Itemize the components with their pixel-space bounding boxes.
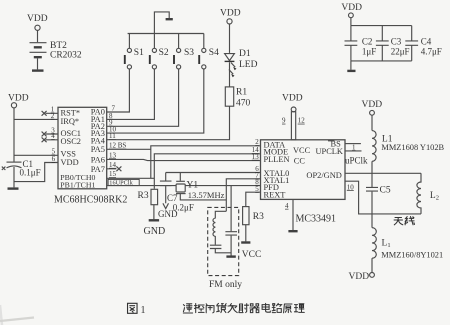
svg-text:22μF: 22μF bbox=[391, 46, 410, 56]
svg-text:10: 10 bbox=[347, 183, 355, 191]
svg-text:C3: C3 bbox=[391, 36, 402, 46]
LED arrows bbox=[229, 63, 235, 75]
svg-text:OSC2: OSC2 bbox=[61, 137, 81, 146]
wire PFD drop bbox=[230, 186, 232, 232]
wire pin 10 bbox=[345, 181, 421, 214]
svg-text:VDD: VDD bbox=[349, 272, 370, 282]
resistor R3 (right) bbox=[243, 207, 249, 225]
pin 4 no-connect bbox=[42, 137, 58, 142]
svg-text:4.7μF: 4.7μF bbox=[421, 46, 442, 56]
wire XTAL1 bbox=[226, 179, 260, 212]
wire pin16 UPClk / PFD bbox=[107, 185, 261, 187]
svg-text:S3: S3 bbox=[184, 48, 194, 58]
svg-text:MC33491: MC33491 bbox=[296, 214, 337, 225]
svg-text:2: 2 bbox=[255, 138, 259, 146]
MCU U1 MC68HC908RK2 bbox=[58, 107, 107, 189]
wire XTAL0 bbox=[166, 172, 261, 174]
pin BS stub bbox=[345, 143, 361, 145]
svg-text:VDD: VDD bbox=[61, 158, 79, 167]
svg-text:VDD: VDD bbox=[341, 3, 362, 13]
wire DATA corner bbox=[151, 146, 261, 179]
scan artifact bbox=[0, 318, 34, 322]
FM-only capacitor (left) bbox=[210, 245, 222, 248]
svg-text:CC: CC bbox=[294, 156, 306, 165]
capacitor C4 bbox=[405, 26, 418, 61]
FM-only network: inductor bbox=[213, 211, 226, 244]
battery BT2 CR2032 bbox=[30, 43, 47, 53]
svg-text:2: 2 bbox=[51, 112, 55, 120]
wire PA2 to S3 bbox=[107, 69, 179, 126]
wire REXT to R3 bbox=[246, 192, 261, 206]
svg-text:uPClk: uPClk bbox=[345, 155, 368, 165]
pin 1 no-connect bbox=[42, 111, 58, 116]
pin 1 UPCLK stub bbox=[345, 150, 362, 152]
svg-text:13: 13 bbox=[252, 153, 260, 161]
IC U2 MC33491 bbox=[261, 140, 346, 200]
svg-text:VDD: VDD bbox=[282, 94, 303, 104]
wire VSS to rail bbox=[14, 154, 58, 156]
svg-text:PA5: PA5 bbox=[91, 145, 105, 154]
resistor R1 470 bbox=[225, 87, 233, 106]
svg-text:PA7: PA7 bbox=[91, 165, 105, 174]
svg-text:VCC: VCC bbox=[242, 250, 262, 260]
svg-text:4: 4 bbox=[285, 202, 289, 210]
svg-text:VDD: VDD bbox=[8, 94, 29, 104]
svg-text:GND: GND bbox=[144, 226, 166, 237]
svg-text:14: 14 bbox=[109, 161, 117, 169]
svg-text:MC68HC908RK2: MC68HC908RK2 bbox=[54, 194, 127, 205]
wire PA5 BS stub bbox=[107, 148, 151, 150]
svg-text:LED: LED bbox=[239, 60, 258, 70]
svg-text:C2: C2 bbox=[362, 36, 373, 46]
wire PA4 to R1 bbox=[107, 106, 230, 140]
svg-text:C4: C4 bbox=[421, 36, 432, 46]
svg-text:1μF: 1μF bbox=[362, 46, 376, 56]
wire pin15 bbox=[107, 177, 155, 179]
capacitor C2 bbox=[345, 26, 358, 61]
inductor L1 MMZ1608 bbox=[372, 131, 376, 162]
FM-only capacitor (right) bbox=[225, 232, 237, 235]
svg-text:OP2/GND: OP2/GND bbox=[306, 171, 341, 180]
svg-text:R3: R3 bbox=[138, 191, 149, 201]
power VDD (bottom) bbox=[370, 273, 375, 278]
wire PA1 to S2 bbox=[107, 69, 155, 119]
svg-text:REXT: REXT bbox=[264, 190, 286, 199]
wire bbox=[37, 30, 39, 42]
ground bbox=[347, 70, 355, 72]
FM only dashed box bbox=[208, 207, 239, 275]
figure caption bbox=[128, 303, 138, 313]
capacitor C7 0.2uF bbox=[165, 173, 167, 181]
svg-text:6: 6 bbox=[52, 155, 56, 163]
svg-text:S4: S4 bbox=[209, 48, 219, 58]
svg-text:UPCLK: UPCLK bbox=[316, 147, 343, 156]
pin 14 no-connect bbox=[107, 166, 122, 171]
wire OP2 to L2 bbox=[345, 172, 421, 174]
svg-text:GND: GND bbox=[158, 209, 178, 219]
svg-text:13: 13 bbox=[109, 151, 117, 159]
ground bbox=[8, 187, 19, 189]
svg-text:S2: S2 bbox=[159, 48, 169, 58]
svg-text:VDD: VDD bbox=[27, 14, 48, 24]
wire PA0 to S1 bbox=[107, 69, 130, 112]
svg-text:R1: R1 bbox=[236, 88, 247, 98]
svg-text:D1: D1 bbox=[239, 49, 251, 59]
svg-text:MMZ1608 Y102B: MMZ1608 Y102B bbox=[381, 143, 444, 152]
svg-text:C5: C5 bbox=[380, 185, 391, 195]
svg-text:15: 15 bbox=[109, 170, 117, 178]
ground (switch bus) bbox=[154, 12, 169, 34]
capacitor C1 bbox=[7, 161, 22, 163]
svg-text:Y1: Y1 bbox=[187, 180, 199, 190]
switch S3 bbox=[174, 34, 194, 70]
svg-text:PLLEN: PLLEN bbox=[264, 155, 290, 164]
svg-text:470: 470 bbox=[236, 99, 251, 109]
svg-text:9: 9 bbox=[282, 117, 286, 125]
wire IRQ to rail bbox=[14, 118, 58, 120]
capacitor C5 bbox=[366, 187, 378, 191]
resistor R3 (left) bbox=[151, 189, 158, 204]
svg-text:PB1/TCH1: PB1/TCH1 bbox=[60, 181, 95, 190]
wire PA3 to S4 bbox=[107, 69, 204, 133]
svg-text:VCC: VCC bbox=[293, 146, 311, 155]
ground bbox=[149, 219, 159, 221]
svg-text:4: 4 bbox=[51, 132, 55, 140]
wire top rail bbox=[351, 25, 412, 27]
svg-text:CR2032: CR2032 bbox=[50, 51, 82, 61]
svg-text:12: 12 bbox=[298, 117, 306, 125]
svg-text:1: 1 bbox=[141, 305, 146, 316]
antenna label (tian xian) bbox=[394, 218, 403, 225]
svg-text:13.57MHz: 13.57MHz bbox=[188, 190, 225, 200]
wire MODE corner to R3 bbox=[154, 154, 260, 189]
switch bus wire bbox=[128, 33, 204, 35]
svg-text:12 BS: 12 BS bbox=[109, 142, 126, 150]
svg-text:VDD: VDD bbox=[362, 100, 383, 110]
switch S4 bbox=[199, 34, 219, 70]
svg-text:5: 5 bbox=[255, 185, 259, 193]
crystal Y1 13.57MHz bbox=[179, 173, 181, 181]
svg-text:S1: S1 bbox=[134, 48, 144, 58]
svg-text:PA6: PA6 bbox=[91, 155, 105, 164]
svg-text:FM only: FM only bbox=[209, 280, 242, 290]
inductor L1' MMZ160/8Y1021 bbox=[372, 228, 376, 259]
pin 3 no-connect bbox=[42, 132, 58, 137]
caption text (yao kong men suo fa she qi dian lu yuan li) bbox=[183, 304, 192, 313]
svg-text:MMZ160/8Y1021: MMZ160/8Y1021 bbox=[381, 251, 443, 260]
switch S2 bbox=[150, 34, 169, 70]
wire PA6 to PLLEN bbox=[107, 159, 261, 160]
wire VDD rail bbox=[13, 108, 15, 187]
svg-text:VDD: VDD bbox=[220, 9, 241, 19]
svg-text:0.1μF: 0.1μF bbox=[20, 168, 41, 178]
svg-text:1: 1 bbox=[352, 143, 356, 151]
svg-text:BT2: BT2 bbox=[50, 41, 67, 51]
svg-text:C7: C7 bbox=[167, 193, 178, 203]
switch S1 bbox=[125, 34, 144, 70]
wire VDD pin6 bbox=[14, 163, 58, 182]
pin 4 ground bbox=[292, 199, 294, 230]
svg-text:R3: R3 bbox=[253, 212, 264, 222]
capacitor C3 bbox=[376, 26, 389, 61]
wire bottom rail bbox=[351, 60, 412, 62]
svg-text:IRQ*: IRQ* bbox=[61, 117, 80, 126]
inductor L2 (antenna loop) bbox=[417, 173, 421, 214]
LED D1 bbox=[225, 54, 235, 61]
